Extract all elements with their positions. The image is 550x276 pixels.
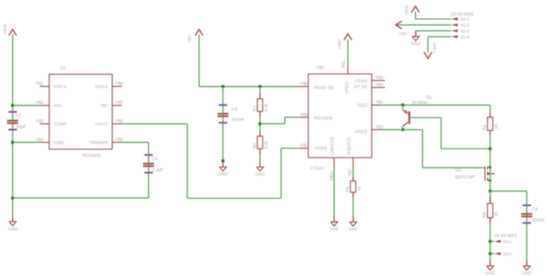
- svg-text:+24V: +24V: [432, 42, 437, 52]
- svg-text:Q2: Q2: [455, 167, 461, 172]
- svg-text:+2V5: +2V5: [404, 5, 409, 16]
- svg-text:+5V: +5V: [399, 31, 407, 36]
- svg-text:100nF: 100nF: [532, 217, 545, 222]
- svg-text:P$2: P$2: [36, 100, 44, 105]
- svg-text:P$6: P$6: [116, 119, 124, 124]
- svg-text:RSET(7): RSET(7): [347, 137, 352, 155]
- svg-text:NC: NC: [101, 103, 108, 108]
- svg-text:REGF (5): REGF (5): [314, 85, 334, 90]
- svg-text:VOUT: VOUT: [95, 122, 108, 127]
- svg-text:P$1: P$1: [341, 60, 346, 68]
- svg-text:P$2: P$2: [376, 100, 384, 105]
- svg-text:OD(9): OD(9): [355, 78, 368, 83]
- svg-text:C1: C1: [16, 113, 22, 118]
- svg-text:Q1: Q1: [426, 94, 432, 99]
- svg-text:R1: R1: [252, 105, 257, 111]
- svg-text:470nF: 470nF: [232, 117, 245, 122]
- svg-text:R5: R5: [482, 212, 487, 218]
- svg-text:+5V: +5V: [187, 35, 192, 43]
- svg-text:P$4: P$4: [300, 112, 308, 117]
- svg-text:IS(2): IS(2): [357, 103, 367, 108]
- svg-text:GND: GND: [348, 226, 358, 231]
- svg-text:TRIM/NR: TRIM/NR: [89, 140, 109, 145]
- svg-text:GND: GND: [485, 270, 495, 275]
- svg-text:C3: C3: [232, 106, 238, 111]
- svg-text:GND: GND: [8, 226, 18, 231]
- svg-text:15: 15: [493, 124, 498, 129]
- svg-text:R2: R2: [252, 142, 257, 148]
- svg-text:VIN(6): VIN(6): [314, 146, 328, 151]
- svg-text:P$4: P$4: [36, 137, 44, 142]
- svg-text:GND: GND: [411, 41, 421, 46]
- svg-text:X1-2: X1-2: [460, 23, 470, 28]
- svg-text:P$8: P$8: [116, 81, 124, 86]
- svg-text:VR(1): VR(1): [344, 81, 349, 93]
- svg-text:P$6: P$6: [300, 143, 308, 148]
- svg-text:+24V: +24V: [337, 39, 342, 49]
- svg-text:REGS(4): REGS(4): [314, 116, 333, 121]
- svg-text:GND(10): GND(10): [329, 136, 334, 155]
- svg-text:GND: GND: [522, 270, 532, 275]
- svg-text:GND: GND: [54, 140, 65, 145]
- svg-text:P$7: P$7: [348, 168, 353, 176]
- svg-text:+2V5: +2V5: [2, 24, 7, 35]
- svg-text:U$1: U$1: [316, 65, 325, 70]
- svg-text:P$3: P$3: [36, 119, 44, 124]
- svg-text:GND: GND: [218, 172, 228, 177]
- svg-text:X1-4: X1-4: [460, 34, 470, 39]
- svg-text:VIN: VIN: [54, 103, 62, 108]
- svg-text:P$5: P$5: [300, 81, 308, 86]
- svg-text:22-23-2021: 22-23-2021: [494, 233, 517, 238]
- svg-text:15: 15: [493, 211, 498, 216]
- svg-text:LT3111: LT3111: [310, 166, 324, 171]
- svg-text:X1-1: X1-1: [460, 17, 470, 22]
- svg-text:2.2µF: 2.2µF: [152, 167, 164, 172]
- svg-text:C4: C4: [532, 207, 538, 212]
- svg-text:P$10: P$10: [329, 170, 334, 180]
- svg-text:X1-3: X1-3: [460, 29, 470, 34]
- svg-text:VG(3): VG(3): [355, 129, 368, 134]
- svg-text:X3-2: X3-2: [503, 251, 513, 256]
- svg-text:P$3: P$3: [376, 124, 384, 129]
- svg-text:BC856A: BC856A: [412, 100, 428, 105]
- svg-text:REF5025: REF5025: [82, 153, 101, 158]
- svg-text:R4: R4: [345, 186, 350, 192]
- svg-text:P$5: P$5: [116, 137, 124, 142]
- svg-text:P$7: P$7: [116, 100, 124, 105]
- svg-text:8.2k: 8.2k: [263, 140, 268, 149]
- svg-text:EP (0): EP (0): [354, 84, 367, 89]
- svg-text:P$1: P$1: [36, 81, 44, 86]
- svg-text:GND: GND: [255, 172, 265, 177]
- svg-text:U1: U1: [60, 65, 66, 70]
- svg-text:BSP170P: BSP170P: [455, 174, 474, 179]
- svg-text:X3-1: X3-1: [503, 239, 513, 244]
- svg-text:C2: C2: [152, 156, 158, 161]
- svg-text:R3: R3: [482, 124, 487, 130]
- svg-text:3.3k: 3.3k: [263, 103, 268, 112]
- svg-text:P$9: P$9: [376, 75, 384, 80]
- svg-text:GND: GND: [329, 226, 339, 231]
- svg-text:10µF: 10µF: [16, 124, 27, 129]
- svg-text:DNC1: DNC1: [54, 84, 67, 89]
- svg-text:DNC2: DNC2: [95, 84, 108, 89]
- svg-text:TEMP: TEMP: [54, 122, 67, 127]
- svg-text:P$0: P$0: [376, 82, 384, 87]
